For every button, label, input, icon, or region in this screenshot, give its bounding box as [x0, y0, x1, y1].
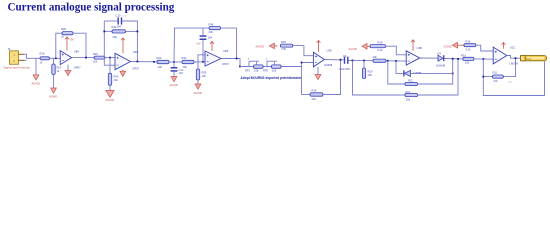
svg-text:R29: R29 — [114, 75, 119, 79]
label LM358 U1C — [510, 61, 519, 65]
node A junction — [55, 57, 57, 59]
wire R36 to U3A plus — [293, 46, 314, 56]
wire fb6 right — [503, 58, 515, 76]
svg-text:R19: R19 — [378, 41, 383, 45]
wire R19 to U3B plus — [386, 46, 407, 55]
ground flag ref5 — [362, 44, 370, 50]
svg-text:U3B: U3B — [417, 46, 422, 50]
connector output terminal — [521, 56, 547, 61]
svg-text:1N4148: 1N4148 — [436, 63, 446, 67]
wire R18 to U3B minus — [386, 60, 406, 62]
svg-text:RP1: RP1 — [245, 69, 251, 73]
svg-text:LM358: LM358 — [510, 61, 519, 65]
capacitor C12 shunt — [171, 62, 184, 75]
resistor R35 shunt — [196, 69, 207, 80]
node U8A out junction — [85, 57, 87, 59]
svg-text:AGND: AGND — [256, 45, 264, 49]
svg-text:Adopt BOURNS imported potentio: Adopt BOURNS imported potentiometer — [241, 76, 302, 80]
svg-text:OP07: OP07 — [222, 62, 229, 66]
svg-text:AGND: AGND — [106, 98, 114, 102]
wire into R26 — [33, 57, 40, 59]
ground flag ref4 — [269, 43, 277, 49]
op-amp AR4 — [115, 53, 131, 69]
label U1C — [510, 45, 515, 49]
wire rail R21 — [353, 60, 406, 95]
power VCC AR5 — [196, 42, 214, 52]
svg-text:U1C: U1C — [510, 45, 515, 49]
op-amp U3A — [313, 52, 324, 67]
svg-text:C8: C8 — [123, 14, 127, 18]
wire fb6 down — [483, 59, 492, 77]
node pot row start — [239, 66, 241, 68]
svg-text:+5V: +5V — [196, 43, 201, 46]
wire U8A output — [72, 57, 94, 59]
wire fb top right — [122, 21, 137, 62]
node AR4 plus — [109, 57, 111, 59]
label U8A — [74, 50, 79, 54]
label OP07 U8A — [74, 65, 81, 69]
wire diode row right — [411, 72, 453, 74]
svg-text:R35: R35 — [202, 71, 207, 75]
wire rail R21 right — [418, 59, 459, 95]
power VCC U1C — [502, 43, 506, 49]
svg-text:10k: 10k — [272, 69, 277, 73]
wire C6 to U3B — [349, 59, 374, 61]
wire R26 to node A — [50, 57, 61, 59]
node U3A minus — [301, 62, 303, 64]
resistor R33 — [182, 56, 195, 69]
diode VREF LM285 — [403, 70, 422, 76]
node U1C out junction — [515, 57, 517, 59]
wire AR4 output — [131, 61, 158, 63]
svg-text:R26: R26 — [40, 52, 45, 56]
node fb5b junction — [395, 60, 397, 62]
svg-text:AGND: AGND — [49, 95, 57, 99]
ground AGND AR4 — [120, 70, 126, 77]
wire AR5 plus to R35 — [198, 55, 205, 69]
svg-text:R21: R21 — [406, 90, 411, 94]
svg-text:5.1k: 5.1k — [466, 48, 472, 52]
node U3A out junction — [340, 59, 342, 61]
wire R16 to U1C plus — [476, 45, 493, 51]
label AR4 — [133, 50, 139, 54]
svg-text:OP07: OP07 — [74, 65, 81, 69]
node diode row junction — [452, 73, 454, 75]
node rail junction — [352, 60, 354, 62]
wire input AGND drop — [35, 58, 37, 75]
wire U3B output — [420, 57, 438, 59]
wire R27 to ground — [53, 75, 55, 89]
connector J1 signal input — [10, 51, 25, 65]
svg-text:C10: C10 — [116, 14, 121, 18]
label OP07 AR4 — [132, 67, 139, 71]
svg-text:AGND: AGND — [444, 45, 452, 49]
ground AGND input — [32, 75, 40, 86]
svg-text:U3A: U3A — [327, 49, 332, 53]
svg-text:+5V: +5V — [70, 39, 75, 42]
op-amp AR5 — [205, 51, 221, 66]
svg-text:20k: 20k — [406, 98, 411, 102]
power VCC U3B — [411, 40, 415, 51]
resistor R18 series — [373, 55, 387, 62]
svg-text:U8A: U8A — [74, 50, 79, 54]
resistor R28 feedback — [61, 27, 73, 39]
wire R33 to AR5 — [194, 61, 205, 63]
svg-text:27k: 27k — [494, 79, 499, 83]
label AGND ref5 — [349, 47, 357, 51]
wire fb3 left — [174, 28, 209, 62]
potentiometer RP2 — [263, 58, 281, 72]
resistor R32 — [157, 56, 170, 69]
ground AGND R35 — [194, 84, 202, 95]
wire R32 to node B — [169, 61, 182, 63]
wire R15 to U1C minus — [474, 58, 493, 60]
ground AGND R27 — [49, 88, 57, 99]
wire C12 to ground — [173, 72, 175, 77]
svg-text:10k: 10k — [202, 74, 207, 78]
faint note 405 — [508, 80, 513, 84]
node AR5 out junction — [236, 58, 238, 60]
wire C13 top — [202, 28, 204, 35]
svg-text:R27: R27 — [57, 66, 62, 70]
resistor R26 — [40, 52, 50, 65]
resistor R31 feedback — [112, 25, 126, 39]
diode D4 — [436, 52, 446, 68]
svg-text:10k: 10k — [183, 65, 188, 69]
resistor R15 series — [461, 54, 474, 65]
wire D4 to R15 — [445, 58, 463, 60]
svg-text:OP07: OP07 — [132, 67, 139, 71]
svg-text:7.5k: 7.5k — [281, 47, 287, 51]
svg-text:R14: R14 — [312, 88, 317, 92]
svg-text:R15: R15 — [461, 54, 466, 58]
label AR5 — [223, 49, 229, 53]
svg-text:Current analogue signal proces: Current analogue signal processing — [8, 2, 175, 14]
wire fb4 right — [323, 60, 341, 95]
resistor R34 feedback — [209, 22, 221, 33]
svg-text:R28: R28 — [61, 27, 66, 31]
node C junction — [202, 61, 204, 63]
svg-text:R22: R22 — [408, 79, 413, 83]
wire diode row left — [396, 61, 403, 73]
svg-text:OUT: OUT — [526, 58, 532, 61]
svg-text:R33: R33 — [182, 56, 187, 60]
op-amp U3B — [406, 51, 420, 65]
wire fb R22 loop — [388, 61, 405, 84]
node B junction — [173, 61, 175, 63]
wire R30 to AR4 — [105, 57, 115, 59]
node fb right — [137, 31, 139, 33]
svg-text:R34: R34 — [209, 22, 214, 26]
label LM358 U3A — [324, 63, 333, 67]
svg-text:AGND: AGND — [349, 47, 357, 51]
svg-text:10uF/25V: 10uF/25V — [339, 67, 351, 71]
power VCC U8A — [65, 37, 74, 51]
svg-text:AGND: AGND — [32, 82, 40, 86]
wire bottom return — [483, 62, 544, 96]
svg-text:R20: R20 — [368, 70, 373, 74]
node R20 junction — [363, 60, 365, 62]
svg-text:20k: 20k — [114, 78, 119, 82]
resistor R19 ref — [370, 41, 386, 52]
svg-text:C6: C6 — [343, 54, 347, 58]
svg-text:5.1k: 5.1k — [378, 48, 384, 52]
resistor R36 ref — [280, 40, 293, 51]
op-amp U1C — [493, 47, 507, 64]
wire R29 to ground — [109, 85, 111, 90]
title text — [8, 2, 175, 14]
svg-text:R32: R32 — [157, 56, 162, 60]
resistor R22 feedback — [405, 79, 418, 86]
wire R35 to ground — [197, 80, 199, 84]
label Signal input terminal — [4, 65, 31, 69]
svg-text:20k: 20k — [368, 73, 373, 77]
svg-text:104: 104 — [179, 71, 184, 75]
label U3B — [417, 46, 422, 50]
wire pot to U3A minus — [302, 63, 314, 67]
svg-text:R30: R30 — [93, 52, 98, 56]
capacitor C13 column — [200, 35, 213, 62]
resistor R21 rail — [405, 90, 418, 102]
wire AR4 minus — [104, 21, 115, 65]
wire fb tier2 right — [126, 30, 138, 32]
svg-text:R36: R36 — [281, 40, 286, 44]
label OP07 AR5 — [222, 62, 229, 66]
wire fb4 down — [301, 67, 303, 95]
svg-text:104: 104 — [208, 36, 213, 40]
label AGND ref4 — [256, 45, 264, 49]
ground AGND R29 — [106, 91, 115, 103]
svg-text:R11: R11 — [493, 71, 498, 75]
node main b — [457, 58, 459, 60]
resistor R14 feedback — [302, 88, 324, 101]
label J1 — [8, 47, 12, 51]
node fb left — [103, 31, 105, 33]
svg-text:AGND: AGND — [194, 91, 202, 95]
svg-text:AGND: AGND — [170, 83, 178, 87]
svg-text:RP2: RP2 — [263, 69, 269, 73]
ground AGND C12 — [170, 77, 178, 88]
wire feedback U8A right — [73, 33, 86, 57]
node AR4 out junction — [137, 61, 139, 63]
label AGND ref6 — [444, 45, 452, 49]
label U3A — [327, 49, 332, 53]
wire pot row — [240, 66, 302, 68]
wire pin2 stub — [24, 59, 27, 61]
svg-text:405: 405 — [508, 80, 513, 84]
wire fb tier2 left — [104, 30, 112, 32]
svg-text:D4: D4 — [438, 52, 442, 56]
resistor R16 ref — [464, 39, 476, 51]
power VCC AR4 — [121, 38, 125, 53]
resistor R29 shunt — [108, 58, 119, 86]
node bottom return junction — [482, 76, 484, 78]
node fb6 junction — [482, 58, 484, 60]
svg-text:J1: J1 — [8, 47, 12, 51]
svg-text:20k: 20k — [209, 30, 214, 34]
capacitor C6 series — [339, 54, 351, 71]
svg-text:10k: 10k — [254, 69, 259, 73]
wire U3A output — [324, 59, 343, 61]
svg-text:20k: 20k — [113, 35, 118, 39]
node fb5a junction — [387, 60, 389, 62]
node pre R32 — [153, 61, 155, 63]
svg-text:10k: 10k — [465, 61, 470, 65]
potentiometer RP1 — [245, 58, 263, 72]
resistor R20 shunt — [362, 61, 372, 79]
svg-text:Signal input terminal: Signal input terminal — [4, 65, 31, 69]
resistor R11 feedback — [492, 71, 503, 83]
annotation potentiometer — [241, 76, 302, 80]
svg-text:10k: 10k — [93, 60, 98, 64]
ground AGND U3A — [315, 67, 321, 80]
wire fb R22 right — [418, 59, 453, 84]
wire fb top left — [104, 20, 117, 22]
svg-text:R16: R16 — [466, 39, 471, 43]
ground AGND U8A — [65, 65, 71, 76]
capacitor C10 feedback — [116, 14, 123, 29]
svg-text:LM358: LM358 — [324, 63, 333, 67]
svg-text:104: 104 — [117, 25, 122, 29]
svg-text:20k: 20k — [312, 97, 317, 101]
power VCC U3A — [317, 41, 321, 53]
node main a — [452, 58, 454, 60]
faint note c8 — [123, 14, 127, 18]
op-amp U8A — [60, 51, 71, 65]
wire AR5 output — [221, 59, 240, 67]
ground flag ref6 — [453, 42, 464, 48]
svg-text:AR4: AR4 — [133, 50, 139, 54]
svg-text:10k: 10k — [158, 65, 163, 69]
resistor R27 shunt — [52, 58, 62, 74]
wire pin1 to main — [24, 54, 33, 58]
wire fb3 right — [221, 28, 237, 58]
wire feedback U8A left — [56, 33, 62, 58]
svg-text:R31: R31 — [112, 25, 117, 29]
svg-text:20k: 20k — [373, 55, 378, 59]
resistor R30 input — [93, 52, 105, 64]
svg-text:AR5: AR5 — [223, 49, 229, 53]
wire U1C output — [507, 56, 521, 59]
